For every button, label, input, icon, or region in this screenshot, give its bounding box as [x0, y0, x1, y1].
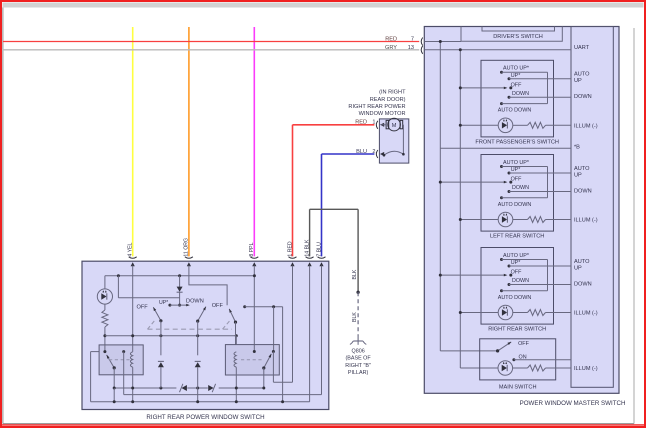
- svg-text:UP*: UP*: [511, 260, 521, 266]
- svg-text:DOWN: DOWN: [512, 185, 529, 191]
- svg-text:14 BLK: 14 BLK: [304, 239, 310, 257]
- svg-text:DOWN: DOWN: [186, 298, 204, 304]
- svg-text:AUTO: AUTO: [574, 166, 590, 172]
- svg-text:FRONT PASSENGER'S SWITCH: FRONT PASSENGER'S SWITCH: [475, 140, 559, 146]
- svg-text:RIGHT REAR POWER WINDOW SWITCH: RIGHT REAR POWER WINDOW SWITCH: [146, 414, 264, 421]
- svg-text:MAIN SWITCH: MAIN SWITCH: [499, 384, 537, 390]
- svg-text:1: 1: [372, 120, 375, 126]
- svg-text:RIGHT REAR POWER: RIGHT REAR POWER: [348, 104, 405, 110]
- svg-text:BLU: BLU: [356, 149, 367, 155]
- svg-text:UP*: UP*: [511, 167, 521, 173]
- svg-text:1 RED: 1 RED: [287, 241, 293, 257]
- svg-text:AUTO UP*: AUTO UP*: [503, 253, 530, 259]
- svg-text:OFF: OFF: [212, 303, 224, 309]
- svg-text:WINDOW MOTOR: WINDOW MOTOR: [359, 111, 406, 117]
- svg-text:*B: *B: [574, 145, 580, 151]
- svg-text:UP: UP: [574, 172, 582, 178]
- svg-text:RIGHT "B": RIGHT "B": [345, 363, 371, 369]
- svg-text:11 ORG: 11 ORG: [184, 238, 190, 257]
- svg-text:BLK: BLK: [352, 312, 358, 322]
- svg-text:ILLUM (-): ILLUM (-): [574, 218, 598, 224]
- svg-text:DOWN: DOWN: [574, 281, 592, 287]
- svg-text:(IN RIGHT: (IN RIGHT: [379, 90, 406, 96]
- svg-text:UP: UP: [574, 78, 582, 84]
- svg-text:AUTO: AUTO: [574, 259, 590, 265]
- svg-text:UP: UP: [574, 265, 582, 271]
- svg-text:7 BLU: 7 BLU: [316, 242, 322, 257]
- svg-text:DOWN: DOWN: [574, 188, 592, 194]
- svg-text:2: 2: [372, 149, 375, 155]
- svg-text:AUTO DOWN: AUTO DOWN: [498, 202, 532, 208]
- svg-text:OFF: OFF: [518, 341, 529, 347]
- svg-text:DOWN: DOWN: [512, 278, 529, 284]
- svg-text:8 PPL: 8 PPL: [249, 242, 255, 256]
- svg-text:PILLAR): PILLAR): [348, 370, 369, 376]
- svg-text:DOWN: DOWN: [574, 94, 592, 100]
- svg-text:BLK: BLK: [352, 269, 358, 279]
- svg-text:DRIVER'S SWITCH: DRIVER'S SWITCH: [493, 34, 543, 40]
- svg-text:OFF: OFF: [511, 177, 522, 183]
- svg-text:OFF: OFF: [137, 305, 149, 311]
- svg-text:(BASE OF: (BASE OF: [346, 356, 372, 362]
- svg-text:UART: UART: [574, 45, 590, 51]
- svg-text:LEFT REAR SWITCH: LEFT REAR SWITCH: [490, 234, 544, 240]
- svg-text:RIGHT REAR SWITCH: RIGHT REAR SWITCH: [488, 327, 546, 333]
- svg-text:AUTO UP*: AUTO UP*: [503, 66, 530, 72]
- svg-text:4 YEL: 4 YEL: [128, 242, 134, 256]
- svg-text:AUTO: AUTO: [574, 72, 590, 78]
- svg-text:Q806: Q806: [352, 348, 365, 354]
- svg-text:UP*: UP*: [511, 73, 521, 79]
- svg-text:DOWN: DOWN: [512, 91, 529, 97]
- svg-text:POWER WINDOW MASTER SWITCH: POWER WINDOW MASTER SWITCH: [520, 400, 626, 407]
- svg-text:ILLUM (-): ILLUM (-): [574, 123, 598, 129]
- svg-text:ILLUM (-): ILLUM (-): [574, 366, 598, 372]
- svg-text:OFF: OFF: [511, 270, 522, 276]
- svg-text:OFF: OFF: [511, 82, 522, 88]
- svg-text:ILLUM (-): ILLUM (-): [574, 311, 598, 317]
- svg-text:AUTO DOWN: AUTO DOWN: [498, 295, 532, 301]
- svg-text:M: M: [392, 123, 397, 129]
- svg-text:UP*: UP*: [159, 300, 168, 306]
- svg-text:RED: RED: [355, 120, 367, 126]
- svg-text:AUTO UP*: AUTO UP*: [503, 160, 530, 166]
- svg-text:AUTO DOWN: AUTO DOWN: [498, 108, 532, 114]
- svg-text:REAR DOOR): REAR DOOR): [370, 97, 406, 103]
